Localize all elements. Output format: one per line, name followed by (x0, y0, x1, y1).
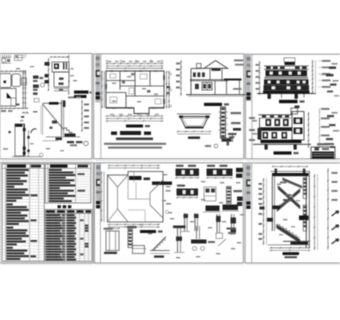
s3 elev1 sill band (265, 76, 309, 79)
s1 wall section side marks (33, 76, 39, 79)
sheet 5 left title strip (96, 164, 101, 205)
s1 stair detail big (43, 102, 63, 104)
s5 right wing hip ridge (150, 180, 163, 193)
sheet 2 left title strip (95, 55, 100, 103)
s3 elev1 chimney (284, 58, 295, 62)
s2 plan left right dims (101, 71, 103, 108)
s1 door second rail (28, 130, 30, 157)
s5 roof plan top dims (108, 165, 160, 167)
s5 frame detail bottom-left (106, 231, 119, 251)
s3 elev1 upper window band (266, 70, 308, 76)
s2 elevation left block (190, 69, 192, 96)
s6 ground slab (283, 240, 310, 242)
s1 plan small box right (22, 78, 27, 85)
s3 elev1 title (279, 100, 298, 103)
sheet 3 paper top-right cut (245, 54, 340, 159)
s1 plan rounded room A (0, 74, 11, 88)
s1 plan rounded room B (12, 74, 21, 87)
s3 elev1 legs (268, 93, 271, 99)
s3 elev2 ground + legs (253, 143, 311, 145)
s6 right dim chain (314, 174, 316, 250)
s3 elev2 roof band (259, 114, 293, 116)
s2 elevation ground (186, 94, 245, 96)
s5 beam detail 1 (176, 165, 184, 167)
s1 small cap marks above door (23, 112, 25, 113)
s5 roof plan dark bar B long (152, 182, 172, 185)
s2 elevation porch (224, 79, 242, 81)
s5 thin vertical details row (184, 213, 186, 231)
s1 detail E box (54, 72, 69, 87)
s2 plan axis bubbles sides (169, 73, 171, 75)
s1 mini plan second top (15, 55, 23, 61)
s6 stair left wall (271, 176, 273, 231)
s5 beam detail 2 (207, 165, 215, 167)
s6 far right dim column (327, 168, 329, 250)
s6 stair right wall (305, 176, 307, 248)
s2 plan inner fixtures (110, 74, 116, 78)
s6 bottom dim lines (270, 247, 310, 249)
sheet 1 paper top-left (0, 54, 92, 159)
sheet 6 paper bottom-right cut (245, 163, 340, 263)
s4 table3 cell text bars (46, 214, 61, 216)
s3 elev1 lower band (264, 85, 310, 91)
s5 T-post detail (173, 226, 186, 229)
s5 cluster mid1 (204, 187, 216, 201)
sheet 2 paper top-middle (94, 54, 244, 159)
s4 spec table 1 frame (2, 164, 44, 261)
s2 elevation chimney (197, 64, 202, 69)
s3 elev1 right dim chain (312, 60, 314, 94)
s3 elev2 left labels (249, 117, 255, 119)
s6 lower flight band with steps (277, 225, 301, 244)
s6 mid landing dark (299, 216, 309, 221)
s6 far right dark glyph 1 (332, 213, 339, 217)
s4 table3 header bars (46, 210, 55, 212)
s2 title block line2 (116, 138, 153, 141)
s3 elev2 lower floor windows (263, 132, 269, 139)
s5 left wing hip ridge (108, 175, 118, 187)
s6 far right dark glyph 2 (332, 227, 339, 231)
s5 mid dark bar left (206, 206, 220, 212)
s6 stair mid labels (283, 199, 291, 201)
s3 elev2 right tower (292, 112, 304, 141)
s3 elev1 left dim chain (259, 61, 261, 95)
s2 elevation right labels (234, 60, 243, 62)
s2 elevation roof (205, 61, 228, 69)
sheet 4 paper bottom-left (0, 163, 93, 263)
s2 floor plan outline (106, 71, 164, 114)
s4 table2 frame (45, 164, 91, 203)
s1 detail E left dim chain (48, 58, 50, 91)
s3 elev1 ground line (257, 93, 316, 95)
s3 elev2 base bar (261, 140, 302, 143)
s6 right hatched column lower (303, 205, 306, 231)
s2 plan window dashes (110, 70, 113, 71)
s2 plan right dim mid dark marks (167, 86, 171, 88)
s5 stair fragment (153, 237, 167, 251)
s3 elev1 mid window band (264, 79, 309, 84)
s1 detail D top-center (50, 56, 69, 58)
s5 cluster bottom middle (196, 226, 198, 239)
s5 mid dark bar right (223, 205, 239, 211)
s5 connecting ridges (128, 198, 150, 200)
sheet 5 paper bottom-middle (94, 163, 243, 263)
s5 cluster mid2 hatched post (227, 187, 232, 204)
s3 right margin label clusters (329, 67, 336, 69)
s4 table1 right col marks (31, 194, 38, 196)
s3 elev2 right dim chain (308, 112, 310, 148)
s5 roof plan left dim (101, 172, 103, 223)
s4 table1 text bars (6, 169, 29, 171)
s3 elev1 base bar (263, 91, 310, 94)
s6 scattered tiny dashes around stair (277, 184, 281, 185)
s6 right hatched column upper (303, 178, 306, 199)
s2 plan bottom dims (106, 115, 163, 117)
s6 flight band up-right (277, 189, 300, 212)
s2 elevation title (204, 103, 222, 106)
s4 door-window table title (58, 205, 61, 208)
s1 stair steps dark zigzag (64, 128, 74, 137)
s3 steps detail bottom right (311, 147, 335, 159)
s1 door swing arc (31, 129, 37, 133)
sheet 6 left title strip (246, 164, 251, 205)
shadow under sheets (1, 159, 92, 161)
s5 right edge note block top (236, 168, 243, 172)
s3 elev2 chimney (291, 108, 298, 114)
s6 stair top slab (271, 170, 310, 172)
s5 beam detail 3 (177, 185, 185, 187)
s1 door frame elevation bottom-left (15, 124, 25, 156)
s1 stair right dim chain (81, 100, 83, 132)
s4 table2 row rules (45, 170, 91, 172)
s5 roof plan dark bar A top-center (129, 176, 142, 180)
s5 vertical detail right w marks (231, 214, 233, 235)
s6 title (283, 252, 300, 255)
s4 table3 frame (45, 210, 92, 262)
s3 elev2 far right labels (321, 108, 330, 110)
s3 elev2 left small dashes shift (253, 120, 258, 122)
s2 plan title (126, 125, 143, 128)
s6 left dim chain (263, 178, 265, 245)
s4 table3 row rules (45, 215, 92, 217)
s1 scattered tiny dashes (16, 68, 20, 69)
s2 title block line1 stars (111, 132, 117, 135)
s4 table1 row rule lines (2, 170, 44, 172)
s2 misc bottom right marks (214, 144, 218, 148)
s3 elev2 mid band (259, 127, 292, 131)
s1 mini elevation top-left (2, 57, 12, 59)
s1 misc marks near bottom (40, 153, 44, 157)
s5 roof plan bottom dims (108, 224, 160, 226)
s4 table2 text bars (49, 169, 62, 171)
s1 dim line below plan (1, 107, 29, 109)
s3 elev2 upper windows (259, 118, 261, 140)
s2 plan interior tiny dashes (112, 83, 116, 84)
s5 leader marks right of plan (166, 190, 171, 192)
s2 title block line4 gray (108, 147, 162, 149)
s3 elev2 title (274, 151, 292, 154)
s5 bottom right leaders (227, 228, 237, 230)
s1 stair bottom labels (67, 141, 74, 143)
s2 trapezoid detail (177, 113, 211, 115)
s3 far right extra tiny marks (332, 63, 338, 65)
s4 table1 header (7, 165, 26, 168)
s6 stair top dim (272, 166, 308, 168)
s2 title block line3 gray (104, 143, 166, 145)
s6 far right dark glyph 3 (332, 241, 339, 245)
s5 right edge dark cluster (237, 197, 243, 201)
s5 roof plan title (140, 230, 156, 233)
s5 scattered tiny label dashes (163, 174, 167, 175)
s6 flight band up-left (278, 186, 300, 210)
s6 upper short flight band (283, 178, 303, 189)
s1 small cluster right of plan (34, 99, 39, 102)
s5 L-wall detail (128, 229, 132, 248)
s2 plan axis bubbles top (106, 60, 108, 62)
s1 wall section vertical (22, 70, 24, 108)
s2 plan bottom edge emphasis (106, 107, 134, 109)
s4 table2 header (50, 165, 68, 168)
s3 elev1 right leader labels (322, 60, 331, 62)
s5 roof plan outline (108, 172, 164, 223)
s2 elevation left dim chain (180, 60, 182, 96)
s2 post detail (221, 107, 226, 138)
s3 elev1 roof band (264, 65, 309, 67)
s1 ground line bottom (12, 156, 42, 158)
s1 stair tiny notes top (68, 97, 74, 99)
s1 plan dark dot (4, 81, 7, 84)
s2 plan top dim lines (106, 63, 163, 65)
sheet 3 left title strip (246, 55, 251, 101)
s2 plan internal walls (119, 71, 121, 90)
s1 dim line above plan (1, 70, 27, 72)
s1 long axis line right of details (68, 55, 70, 96)
s1 plan lower room with triangle (0, 89, 16, 107)
s1 dark note block right (74, 91, 89, 94)
